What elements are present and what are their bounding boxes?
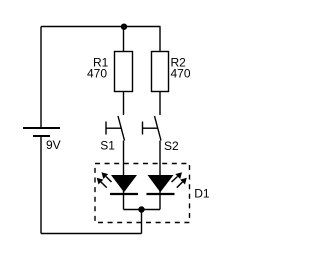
wire S2 to LED2 anode: [159, 141, 161, 210]
switch S1 actuator tick: [105, 122, 107, 135]
wire bottom horizontal: [41, 233, 142, 235]
wire cathode bus: [124, 209, 161, 211]
wire R2 bottom lead: [159, 92, 161, 116]
switch S2 lever: [155, 116, 162, 141]
svg-text:470: 470: [171, 67, 191, 81]
resistor R2 body: [152, 52, 169, 92]
LED 1 arrow b: [97, 178, 107, 188]
LED 1 triangle: [111, 175, 137, 192]
switch S2 actuator bar: [143, 127, 158, 129]
switch S2 actuator tick: [142, 122, 144, 135]
LED 2 arrow a: [172, 172, 183, 182]
battery 9V positive plate: [23, 127, 60, 129]
junction node cathode bus: [138, 206, 144, 212]
LED 1 cathode bar: [110, 193, 138, 195]
wire bus to bottom: [141, 210, 143, 234]
svg-text:S1: S1: [100, 139, 115, 153]
svg-text:470: 470: [87, 67, 107, 81]
wire R1 bottom lead: [123, 92, 125, 116]
svg-text:S2: S2: [164, 139, 179, 153]
switch S1 lever: [118, 116, 125, 141]
wire S1 to LED1 anode: [123, 141, 125, 210]
svg-text:9V: 9V: [46, 138, 61, 152]
svg-text:D1: D1: [194, 187, 210, 201]
LED 2 cathode bar: [147, 193, 175, 195]
wire battery positive lead: [40, 27, 42, 128]
resistor R1 body: [115, 52, 133, 92]
wire top horizontal: [41, 26, 161, 28]
module D1 dashed box: [95, 164, 190, 223]
LED 2 arrow b: [177, 178, 187, 188]
LED 2 triangle: [148, 175, 174, 192]
battery 9V negative plate: [33, 135, 50, 137]
wire R2 top lead: [159, 27, 161, 53]
wire battery negative lead: [40, 137, 42, 234]
switch S1 actuator bar: [106, 127, 121, 129]
junction node top: [121, 24, 127, 30]
wire R1 top lead: [123, 27, 125, 53]
LED 1 arrow a: [102, 172, 112, 182]
